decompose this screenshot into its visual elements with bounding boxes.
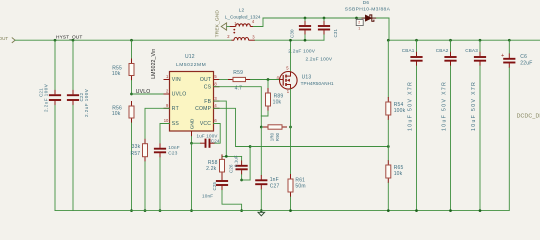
resistor R54 (387, 97, 389, 102)
junction CBA2 top (449, 39, 452, 42)
wire drain (290, 40, 292, 71)
svg-text:L_Coupled_1324: L_Coupled_1324 (225, 14, 261, 19)
junction CBA3 ground (479, 209, 482, 212)
wire C30 bottom (304, 35, 306, 40)
svg-text:VIN: VIN (172, 77, 181, 83)
U12 right pin stubs (214, 79, 220, 81)
capacitor C21 (49, 95, 61, 100)
svg-text:U13: U13 (302, 74, 312, 80)
junction feedback divider (387, 145, 390, 148)
wire D6 cathode to output rail (377, 18, 390, 40)
svg-text:10nF: 10nF (168, 145, 179, 150)
svg-text:100k: 100k (394, 108, 406, 114)
wire C31 bottom (323, 35, 325, 40)
resistor R61 (290, 174, 292, 179)
wire rail to R55 (131, 40, 133, 58)
junction output divider tap (387, 39, 390, 42)
wire ground rail (55, 210, 509, 212)
wire output to R54 (387, 40, 389, 97)
svg-text:33k: 33k (132, 144, 141, 150)
junction CBA1 top (415, 39, 418, 42)
svg-text:UVLO: UVLO (136, 89, 151, 95)
junction source sense node (289, 126, 292, 129)
wire C26 bottom (241, 175, 243, 180)
junction FB compensation node (225, 155, 228, 158)
junction C31 top (323, 17, 326, 20)
capacitor C24 (206, 139, 210, 148)
junction UVLO node (130, 93, 133, 96)
resistor R89 (267, 88, 269, 93)
wire CBA3 bottom to ground rail (479, 66, 481, 211)
junction C6 top (508, 39, 511, 42)
wire U12 GND pin down (191, 137, 193, 144)
junction C30 top (304, 17, 307, 20)
svg-text:DCDC_DEB: DCDC_DEB (517, 113, 540, 119)
wire C22 bottom to ground rail (72, 105, 74, 210)
wire L2 pin 4 jog (253, 18, 263, 27)
svg-text:10k: 10k (112, 111, 121, 117)
wire FB line to divider (250, 146, 388, 148)
wire GND node to ground rail (191, 143, 193, 210)
wire UVLO to U12 pin 2 (132, 93, 170, 95)
capacitor C23 (154, 149, 166, 153)
svg-text:L2: L2 (239, 7, 245, 13)
junction GND-C24 node (190, 142, 193, 145)
svg-text:C30: C30 (289, 29, 294, 38)
junction drain rail (289, 39, 292, 42)
L2 polarity dots (233, 29, 235, 31)
wire TREK_GND to L2 pin 1 (227, 26, 230, 28)
svg-text:10k: 10k (273, 99, 282, 105)
wire sense node to R61 (290, 127, 292, 174)
resistor R57 (144, 139, 146, 144)
junction R57 ground (144, 209, 147, 212)
wire comp feedback vertical (249, 147, 251, 181)
svg-text:10uF 50V X7R: 10uF 50V X7R (471, 81, 477, 131)
svg-text:CBA1: CBA1 (402, 48, 415, 53)
wire C6 top (508, 40, 510, 53)
wire FB pin to compensation node (214, 101, 227, 156)
svg-text:FB: FB (204, 99, 211, 105)
junction C23 ground (159, 209, 162, 212)
svg-text:10uF 50V X7R: 10uF 50V X7R (441, 81, 447, 131)
wire C23 bottom to ground rail (159, 158, 161, 211)
svg-text:C23: C23 (168, 151, 177, 156)
capacitor CBA2 (444, 57, 456, 61)
svg-text:HYST_OUT: HYST_OUT (56, 35, 82, 41)
svg-text:C27: C27 (270, 183, 280, 189)
wire C26 node right (242, 179, 251, 181)
resistor R56 (131, 101, 133, 106)
wire C27 bottom to ground rail (260, 190, 262, 211)
junction FB line left (249, 145, 252, 148)
wire R54 to FB node (387, 120, 389, 147)
capacitor C31 (318, 26, 330, 30)
junction CBA2 ground (449, 209, 452, 212)
junction C30 bottom (304, 39, 307, 42)
wire CS node to C27 (260, 127, 262, 175)
svg-text:R61: R61 (295, 177, 305, 183)
svg-text:10nF: 10nF (202, 193, 213, 198)
resistor R59 (228, 79, 233, 81)
svg-text:10: 10 (164, 118, 169, 123)
capacitor C26 (236, 166, 248, 170)
svg-text:R57: R57 (131, 151, 141, 157)
junction C25 ground (240, 209, 243, 212)
wire CBA2 top (450, 40, 452, 52)
U12 GND pin stub (pin 7) (191, 131, 193, 137)
wire C31 top (323, 18, 325, 21)
svg-text:TPH4R50ANH1: TPH4R50ANH1 (301, 81, 334, 86)
wire output rail (389, 39, 540, 41)
hierarchical label OUT chevron (12, 38, 15, 43)
wire RT to R57 (145, 108, 170, 138)
svg-text:C6: C6 (520, 54, 527, 60)
wire C6 bottom to ground rail (508, 68, 510, 211)
wire COMP pin to FB line (214, 108, 251, 146)
wire C24 to VCC pin 6 (214, 124, 221, 144)
svg-text:1nF: 1nF (270, 177, 279, 183)
inductor L2 winding A (pins 1-4) (236, 24, 251, 27)
junction R56 ground (130, 209, 133, 212)
wire CBA1 bottom to ground rail (416, 66, 418, 211)
capacitor C22 (67, 95, 79, 100)
wire R89 bottom jog (261, 111, 268, 116)
wire C25 bottom jog to ground rail (222, 190, 242, 210)
transistor U13 TPH4R50ANH1 (280, 71, 298, 89)
junction D6 anode tap (355, 17, 358, 20)
svg-text:GND: GND (190, 118, 196, 129)
capacitor C27 (255, 180, 267, 184)
D6 anode package box (pins 2/1) (356, 18, 358, 20)
svg-text:+: + (501, 53, 504, 59)
junction C27 ground (260, 209, 263, 212)
svg-text:2: 2 (358, 20, 360, 24)
junction gate node (267, 78, 270, 81)
svg-text:OUT: OUT (0, 36, 8, 41)
junction CS filter node (260, 126, 263, 129)
svg-text:COMP: COMP (195, 106, 211, 112)
capacitor C25 (216, 181, 228, 185)
svg-text:CBA2: CBA2 (436, 48, 449, 53)
wire C30 top (304, 18, 306, 21)
svg-text:SS: SS (172, 121, 180, 127)
wire C26 top (241, 156, 243, 160)
wire CBA1 top (416, 40, 418, 52)
TREK_GND chevron (221, 23, 226, 30)
junction R55 top (130, 39, 133, 42)
wire gate to R89 (267, 80, 269, 89)
capacitor CBA3 (474, 57, 486, 61)
capacitor C30 (299, 26, 311, 30)
wire C22 top (72, 40, 74, 90)
wire compensation top node (222, 155, 242, 157)
resistor R55 (131, 59, 133, 64)
junction CBA1 ground (415, 209, 418, 212)
svg-text:1: 1 (358, 26, 360, 30)
junction C22 top (72, 39, 75, 42)
junction CBA3 top (479, 39, 482, 42)
junction R61 ground (289, 209, 292, 212)
svg-text:2.2uF 100V: 2.2uF 100V (306, 56, 333, 62)
wire source to sense (290, 89, 292, 127)
wire R57 bottom to ground rail (144, 162, 146, 211)
wire FB node to R65 (387, 147, 389, 161)
wire R65 bottom to ground rail (387, 183, 389, 211)
inductor L2 winding B (pins 2-3) (234, 37, 249, 40)
wire R61 bottom to ground rail (290, 197, 292, 211)
op-amp U12 LM5022MM body (170, 72, 214, 132)
diode D6 (365, 15, 371, 21)
svg-text:2.2uF 100V: 2.2uF 100V (84, 89, 89, 117)
svg-text:10k: 10k (394, 171, 403, 177)
svg-text:C25: C25 (212, 182, 217, 191)
capacitor C6 (polarized) (503, 59, 515, 63)
svg-text:10k: 10k (112, 71, 121, 77)
svg-text:2.2uF 100V: 2.2uF 100V (44, 84, 49, 112)
junction C26 bottom node (240, 179, 243, 182)
resistor R58 (221, 154, 223, 159)
wire OUT pin to R59 (220, 79, 228, 81)
junction R65 ground (387, 209, 390, 212)
wire CBA3 top (479, 40, 481, 52)
svg-text:RT: RT (172, 106, 179, 112)
wire SS to C23 (160, 124, 170, 144)
svg-text:10uF 50V X7R: 10uF 50V X7R (407, 81, 413, 131)
wire CS pin to sense filter (214, 87, 262, 127)
ground symbol (260, 211, 262, 213)
wire GND node to C24 (192, 142, 201, 144)
svg-text:0.1uF: 0.1uF (234, 155, 239, 167)
wire drain rail (255, 39, 324, 41)
wire C21 top (54, 40, 56, 90)
svg-text:VCC: VCC (200, 121, 211, 127)
svg-text:R90: R90 (275, 132, 280, 141)
wire top switch rail (263, 17, 389, 19)
svg-text:22uF: 22uF (520, 60, 532, 66)
resistor R90 (263, 126, 268, 128)
capacitor CBA1 (410, 57, 422, 61)
svg-text:50m: 50m (295, 184, 305, 190)
svg-text:R59: R59 (233, 70, 243, 76)
svg-text:UVLO: UVLO (172, 92, 187, 98)
svg-text:SSBPH10-M3/88A: SSBPH10-M3/88A (345, 6, 391, 12)
wire C21 bottom to ground rail (54, 105, 56, 210)
svg-text:LM5022_Vin: LM5022_Vin (151, 49, 157, 79)
wire R59 to Q gate (251, 79, 280, 81)
svg-text:LM5022MM: LM5022MM (176, 62, 206, 68)
wire R55 to junction (131, 81, 133, 95)
svg-text:C31: C31 (333, 29, 338, 38)
svg-text:CBA3: CBA3 (465, 48, 478, 53)
wire R56 bottom to ground rail (131, 123, 133, 211)
svg-text:U12: U12 (185, 54, 195, 60)
svg-text:2.2k: 2.2k (206, 166, 217, 172)
resistor R65 (387, 160, 389, 165)
svg-text:CS: CS (204, 84, 212, 90)
wire CBA2 bottom to ground rail (450, 66, 452, 211)
svg-text:D6: D6 (363, 0, 370, 5)
svg-text:OUT: OUT (200, 77, 211, 83)
svg-text:1R0: 1R0 (269, 132, 274, 141)
wire HYST_OUT rail (15, 39, 231, 41)
junction C21 top (54, 39, 57, 42)
junction U12 ground rail (190, 209, 193, 212)
svg-text:2.2uF 100V: 2.2uF 100V (288, 49, 315, 55)
U12 left pin stubs (164, 79, 170, 81)
svg-text:TREK_GND: TREK_GND (215, 10, 221, 38)
